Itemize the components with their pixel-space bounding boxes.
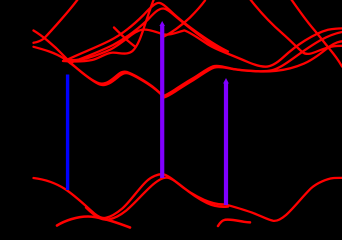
blue transition arrow [66,75,69,191]
valence band hook near X [218,220,250,226]
steep descending band top-right A [250,0,342,54]
arch band 2 peaking at Gamma [70,9,224,64]
U-shaped band left of Gamma [63,0,154,62]
arch band 1 peaking at Gamma [67,3,228,60]
rising band right of Gamma [163,1,205,38]
valence band lower [86,178,228,220]
purple transition arrow near X [224,83,228,206]
valence band upper [34,174,227,218]
steep conduction band top-left [34,0,79,43]
descending band into lens crossing [114,28,135,47]
flat middle band through Gamma [64,28,342,66]
steep descending band top-right B [291,0,342,67]
valence band arc bottom-left [57,217,130,228]
purple transition arrow at Gamma [160,25,164,178]
valence band right single to X and beyond [225,178,342,221]
wavy conduction band upper (L to X) [34,31,342,97]
wavy conduction band lower (L to X) [34,41,342,97]
